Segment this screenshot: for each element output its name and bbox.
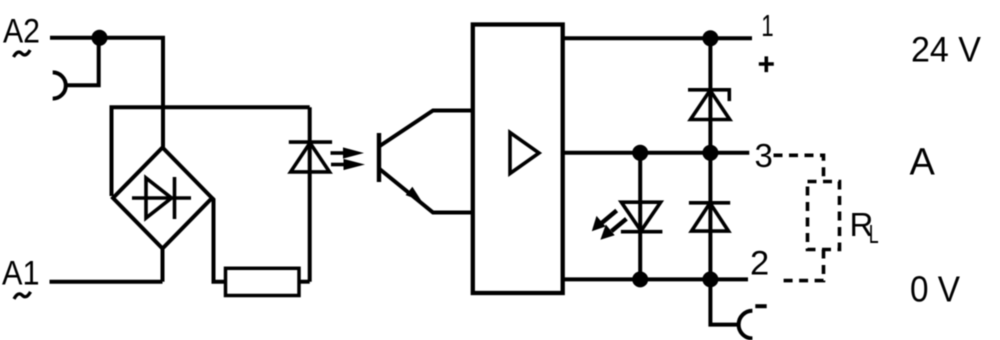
- svg-text:3: 3: [755, 137, 773, 174]
- wire rail tail to minus terminal: [710, 279, 738, 324]
- phototransistor emitter arrow: [406, 187, 422, 201]
- wire resistor right lead: [299, 280, 310, 284]
- status LED diode: [621, 202, 663, 232]
- suppressor zener diode top: [688, 90, 730, 120]
- wire output line 2: [562, 277, 748, 281]
- status LED emission arrow upper: [592, 211, 617, 232]
- AC tilde under A1: [14, 292, 31, 299]
- amplifier triangle: [510, 133, 539, 174]
- freewheel diode bottom: [689, 203, 730, 231]
- wire A2 lead: [50, 38, 163, 148]
- opto light arrow lower: [331, 159, 365, 170]
- phototransistor collector: [379, 111, 473, 147]
- opto light arrow upper: [331, 147, 365, 158]
- resistor R (series): [226, 268, 300, 295]
- node dot line2/rail: [702, 271, 718, 287]
- wire opto LED column: [308, 107, 312, 281]
- node dot line1/rail: [702, 30, 718, 46]
- svg-text:2: 2: [750, 244, 769, 282]
- node dot line3/rail: [702, 145, 718, 161]
- load resistor RL dashed: [808, 182, 840, 250]
- opto LED diode: [289, 142, 332, 172]
- node junction at A2 branch: [92, 30, 108, 46]
- svg-text:A2: A2: [3, 13, 40, 51]
- node dot line3/led: [632, 145, 648, 161]
- dashed load link top: [774, 155, 824, 181]
- wire output rail vertical: [708, 38, 712, 279]
- svg-text:1: 1: [761, 8, 773, 42]
- node dot line2/led: [632, 271, 648, 287]
- svg-text:A1: A1: [2, 254, 40, 292]
- minus sign: [755, 304, 766, 308]
- wire A1 up to bridge bottom: [161, 249, 165, 282]
- phototransistor emitter: [379, 169, 473, 213]
- svg-text:L: L: [869, 220, 879, 249]
- wire bridge minus rail (top horizontal): [112, 107, 310, 196]
- plus sign: [759, 56, 774, 72]
- status LED branch wire: [638, 153, 642, 280]
- wire output line 1: [562, 36, 752, 40]
- wire bridge right vertex down: [212, 198, 226, 282]
- amplifier block U1: [473, 25, 563, 294]
- svg-text:A: A: [910, 142, 936, 184]
- wire output line 3: [562, 151, 749, 155]
- AC tilde under A2: [14, 50, 31, 57]
- wire A1 lead: [50, 280, 163, 284]
- status LED emission arrow lower: [600, 219, 626, 240]
- svg-text:0 V: 0 V: [910, 268, 960, 309]
- coil half-moon terminal bottom-right: [739, 311, 753, 339]
- svg-text:24 V: 24 V: [911, 29, 981, 69]
- bridge inner diode: [132, 177, 191, 219]
- coil half-moon terminal top-left: [53, 72, 66, 98]
- phototransistor Q1 base bar: [377, 133, 381, 182]
- bridge rectifier diamond: [113, 148, 212, 249]
- dashed load link bottom: [779, 250, 824, 281]
- wire branch down from junction: [66, 38, 99, 86]
